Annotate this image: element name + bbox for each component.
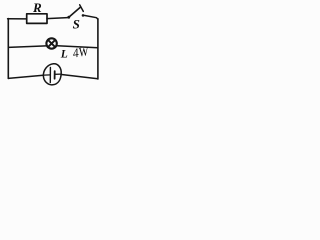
svg-text:R: R <box>32 0 42 15</box>
svg-text:4W: 4W <box>72 43 91 60</box>
svg-text:S: S <box>73 17 80 32</box>
svg-text:L: L <box>60 49 68 61</box>
